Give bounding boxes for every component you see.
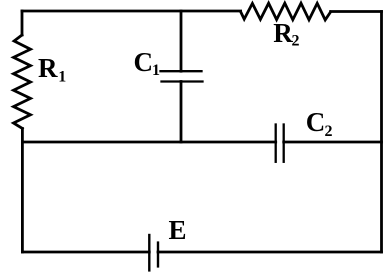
wire middle-left segment xyxy=(22,141,275,144)
svg-text:1: 1 xyxy=(58,69,66,86)
wire middle branch bottom xyxy=(180,82,183,143)
resistor R1 xyxy=(14,35,31,129)
wire top-left segment xyxy=(22,10,241,13)
wire middle branch top xyxy=(180,11,183,71)
capacitor C1 top plate xyxy=(161,70,202,72)
svg-text:2: 2 xyxy=(292,32,300,49)
wire top-right segment xyxy=(331,10,382,13)
battery E left plate xyxy=(148,235,150,270)
wire left top lead xyxy=(21,11,24,35)
svg-text:R: R xyxy=(273,18,293,48)
wire bottom-right segment xyxy=(158,251,382,254)
resistor R2 xyxy=(241,3,331,20)
wire left bottom segment xyxy=(21,129,24,253)
capacitor C1 bottom plate xyxy=(162,80,203,82)
capacitor C2 right plate xyxy=(283,125,285,162)
svg-text:E: E xyxy=(169,215,187,245)
svg-text:2: 2 xyxy=(325,123,333,140)
svg-text:1: 1 xyxy=(152,62,160,79)
svg-text:R: R xyxy=(38,53,58,83)
capacitor C2 left plate xyxy=(275,125,277,162)
svg-text:C: C xyxy=(306,107,326,137)
wire right side xyxy=(380,12,383,253)
wire middle-right segment xyxy=(284,141,382,144)
svg-text:C: C xyxy=(134,47,154,77)
battery E right plate xyxy=(157,243,159,267)
wire bottom-left segment xyxy=(22,251,149,254)
